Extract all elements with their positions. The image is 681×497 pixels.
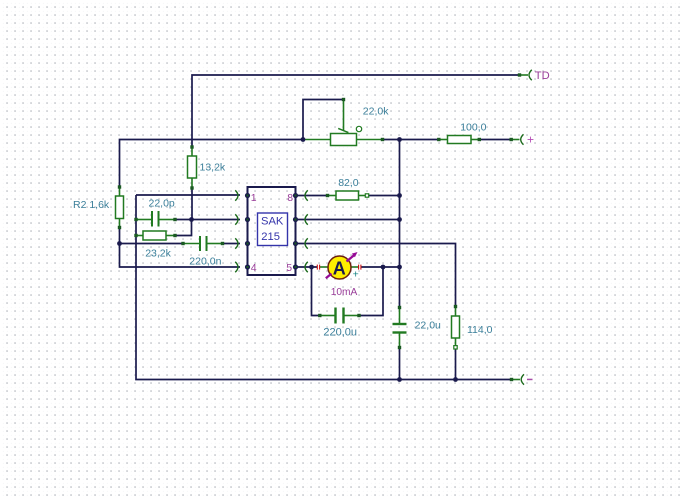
svg-text:4: 4 [251,262,257,274]
svg-text:10mA: 10mA [331,287,358,298]
svg-text:100,0: 100,0 [460,122,486,134]
svg-text:22,0u: 22,0u [415,319,441,331]
svg-text:8: 8 [287,192,293,204]
svg-text:22,0p: 22,0p [149,197,175,209]
svg-text:82,0: 82,0 [338,177,359,189]
svg-text:220,0u: 220,0u [323,326,357,338]
svg-text:23,2k: 23,2k [145,248,171,260]
svg-text:+: + [527,133,534,147]
svg-text:A: A [333,258,346,278]
svg-text:TD: TD [535,70,550,82]
svg-text:+: + [353,268,359,280]
svg-text:215: 215 [261,231,280,243]
svg-text:114,0: 114,0 [467,324,493,336]
svg-text:13,2k: 13,2k [200,162,226,174]
svg-text:220,0n: 220,0n [189,255,221,267]
svg-text:1: 1 [251,192,257,204]
svg-text:SAK: SAK [261,215,284,227]
svg-text:R2 1,6k: R2 1,6k [73,199,110,211]
svg-text:22,0k: 22,0k [363,105,389,117]
svg-text:5: 5 [286,262,292,274]
